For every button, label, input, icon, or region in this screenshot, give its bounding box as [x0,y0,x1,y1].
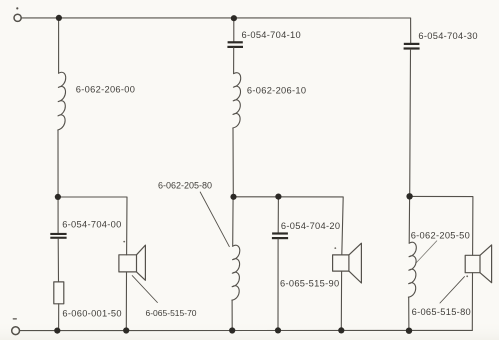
polarity mark speaker3 [466,275,468,277]
svg-text:6-062-205-80: 6-062-205-80 [158,180,212,190]
capacitor 6-054-704-20 [272,232,288,239]
wire: inductor to mid junction [232,128,234,197]
svg-text:6-065-515-90: 6-065-515-90 [280,278,339,288]
node: bottom bus / branch3 [406,328,412,334]
capacitor 6-054-704-10 [227,41,243,48]
leader line inductor 6-062-205-80 [200,192,229,247]
node: top bus / branch2 [231,15,237,21]
wire: branch3 junction down to inductor [408,196,410,243]
wire: branch1 vertical top [58,18,60,73]
capacitor 6-054-704-00 [50,233,66,239]
polarity mark speaker2 [334,247,336,249]
svg-text:6-054-704-00: 6-054-704-00 [62,220,121,230]
wire: speaker2 to bottom bus [340,271,342,330]
svg-text:6-065-515-70: 6-065-515-70 [146,308,197,318]
node: branch2 mid junction [230,194,236,200]
svg-text:6-060-001-50: 6-060-001-50 [62,308,121,318]
inductor 6-062-206-00 [58,72,66,130]
svg-text:6-054-704-20: 6-054-704-20 [281,221,340,231]
svg-text:6-054-704-10: 6-054-704-10 [242,30,301,40]
wire: capacitor to inductor [233,48,235,74]
wire: capacitor to mid junction [409,49,412,196]
polarity mark speaker1 [123,241,125,243]
wire: branch1 vertical mid [57,130,59,233]
speaker 6-065-515-80 [465,245,491,283]
node: bottom bus / speaker1 [123,327,129,333]
leader line inductor 6-062-205-50 [417,241,437,263]
node: top bus / branch1 [56,15,62,21]
wire: branch2 junction down to inductor [232,197,234,246]
resistor 6-060-001-50 [54,282,64,304]
speaker 6-065-515-90 [333,243,362,283]
svg-text:6-062-206-10: 6-062-206-10 [247,86,306,96]
wire: mid row right (junction to speaker3 corner) [410,196,473,255]
node: bottom bus / branch1 [54,328,60,334]
wire: bottom bus [20,329,473,331]
node: branch3 mid junction [406,193,412,199]
terminal minus (bottom-left) [12,319,20,335]
svg-text:6-065-515-80: 6-065-515-80 [412,307,471,317]
svg-text:6-062-206-00: 6-062-206-00 [76,85,135,95]
svg-text:6-054-704-30: 6-054-704-30 [418,31,477,41]
node: branch1 mid junction [55,194,61,200]
leader line speaker3 [440,277,465,303]
wire: inductor3 to bottom bus [408,297,410,331]
wire: top bus [21,17,410,19]
leader line speaker1 [132,276,157,303]
node: bottom bus / cap3 [275,327,281,333]
wire: capacitor to resistor [57,239,59,282]
wire: mid row (junction to speaker2 corner) [233,197,343,255]
inductor 6-062-205-50 [408,242,416,297]
node: cap3 mid junction [275,194,281,200]
wire: branch cap3 vertical [277,197,279,233]
speaker 6-065-515-70 [119,245,145,280]
wire: branch2 vertical top [233,18,235,41]
inductor 6-062-206-10 [233,73,241,128]
wire: speaker3 to bottom bus corner [471,273,473,331]
svg-text:6-062-205-50: 6-062-205-50 [411,230,470,240]
wire: branch3 vertical top [410,18,412,43]
inductor 6-062-205-80 [232,245,240,300]
wire: speaker1 to bottom bus [125,272,127,330]
node: bottom bus / branch2 [229,327,235,333]
wire: resistor to bottom bus [58,304,60,331]
wire: inductor to bottom bus [231,300,233,330]
node: bottom bus / speaker2 [338,327,344,333]
wire: capacitor to bottom bus [277,239,279,330]
capacitor 6-054-704-30 [404,43,420,50]
terminal plus (top-left input) [14,7,21,21]
wire: mid row left (to speaker1) [58,197,127,255]
